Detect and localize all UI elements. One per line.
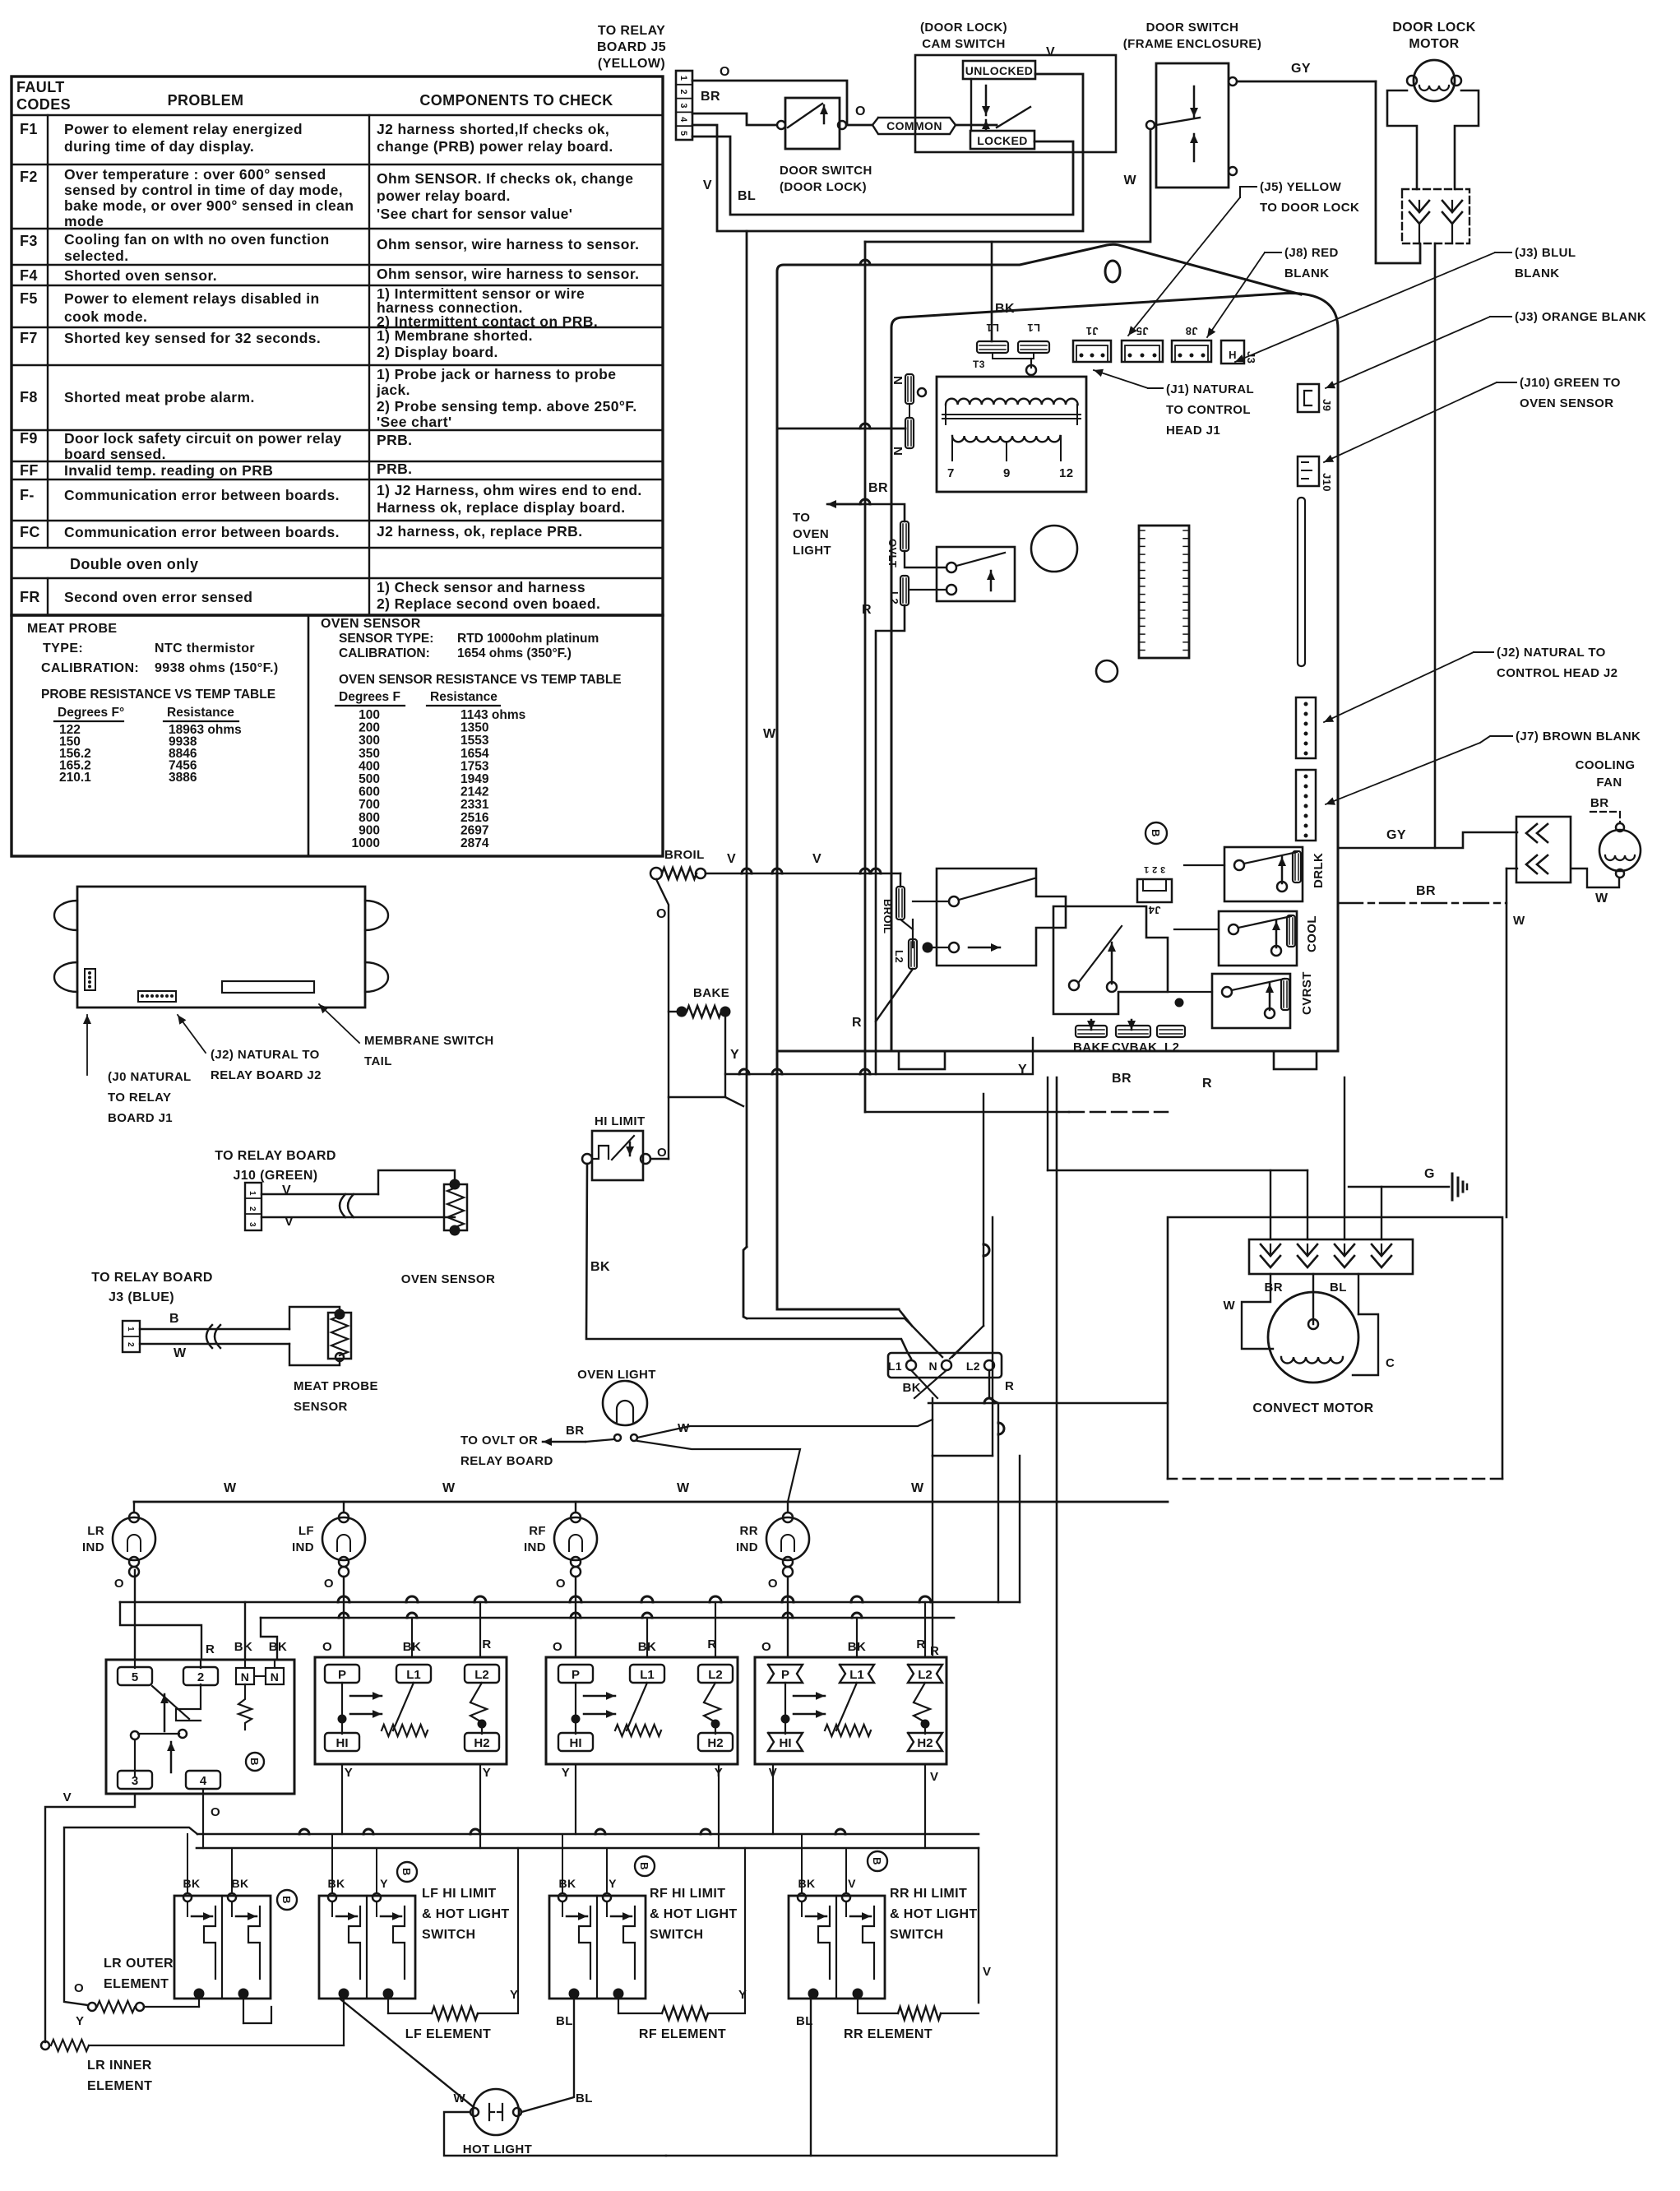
svg-text:Communication error between bo: Communication error between boards. xyxy=(64,524,340,540)
svg-text:HOT LIGHT: HOT LIGHT xyxy=(463,2142,532,2156)
svg-text:(YELLOW): (YELLOW) xyxy=(598,57,665,71)
svg-text:Door lock safety circuit on po: Door lock safety circuit on power relay xyxy=(64,430,342,447)
svg-text:Power to element relays disabl: Power to element relays disabled in xyxy=(64,290,320,307)
svg-text:NTC thermistor: NTC thermistor xyxy=(155,642,255,655)
svg-text:V: V xyxy=(930,1770,938,1784)
svg-text:O: O xyxy=(322,1640,332,1654)
svg-text:V: V xyxy=(282,1184,291,1197)
svg-text:COMPONENTS TO CHECK: COMPONENTS TO CHECK xyxy=(419,92,613,109)
svg-text:SENSOR: SENSOR xyxy=(294,1400,348,1414)
svg-text:SENSOR TYPE:: SENSOR TYPE: xyxy=(339,632,433,646)
svg-text:(J2) NATURAL TO: (J2) NATURAL TO xyxy=(1497,646,1606,660)
svg-text:1654 ohms (350°F.): 1654 ohms (350°F.) xyxy=(457,646,572,660)
svg-text:W: W xyxy=(174,1346,187,1360)
svg-text:V: V xyxy=(1046,45,1055,59)
svg-text:Over temperature : over 600° s: Over temperature : over 600° sensed xyxy=(64,166,326,183)
svg-text:P: P xyxy=(781,1668,789,1682)
svg-text:FC: FC xyxy=(20,524,40,540)
svg-text:L1: L1 xyxy=(888,1360,902,1373)
svg-text:TO RELAY: TO RELAY xyxy=(598,24,665,38)
svg-text:2: 2 xyxy=(126,1342,135,1347)
svg-text:F5: F5 xyxy=(20,290,38,307)
svg-text:F4: F4 xyxy=(20,267,38,284)
svg-text:BAKE: BAKE xyxy=(1073,1040,1109,1054)
svg-text:Y: Y xyxy=(380,1877,388,1890)
svg-text:ELEMENT: ELEMENT xyxy=(87,2079,152,2093)
svg-text:F8: F8 xyxy=(20,389,38,405)
svg-text:TO: TO xyxy=(793,511,810,525)
svg-text:O: O xyxy=(768,1577,778,1591)
svg-text:F3: F3 xyxy=(20,233,38,249)
svg-text:BK: BK xyxy=(558,1877,576,1890)
svg-text:BR: BR xyxy=(1112,1072,1132,1086)
svg-text:O: O xyxy=(556,1577,566,1591)
svg-text:UNLOCKED: UNLOCKED xyxy=(965,64,1034,77)
svg-text:900: 900 xyxy=(359,823,380,837)
svg-text:O: O xyxy=(324,1577,334,1591)
svg-text:BK: BK xyxy=(995,302,1015,316)
svg-text:jack.: jack. xyxy=(376,382,410,398)
svg-text:Power to element relay energiz: Power to element relay energized xyxy=(64,121,303,137)
svg-text:HI: HI xyxy=(336,1736,349,1750)
svg-text:(J3) ORANGE BLANK: (J3) ORANGE BLANK xyxy=(1515,310,1646,324)
svg-text:L1: L1 xyxy=(406,1668,421,1682)
svg-text:700: 700 xyxy=(359,798,380,812)
svg-text:V: V xyxy=(727,852,736,866)
svg-text:OVEN SENSOR: OVEN SENSOR xyxy=(1520,396,1613,410)
svg-text:F2: F2 xyxy=(20,169,38,185)
svg-text:1553: 1553 xyxy=(460,734,489,748)
svg-text:BL: BL xyxy=(556,2014,573,2028)
svg-text:TO DOOR LOCK: TO DOOR LOCK xyxy=(1260,201,1359,215)
svg-text:1: 1 xyxy=(678,76,688,81)
svg-text:HI: HI xyxy=(780,1736,792,1750)
svg-text:B: B xyxy=(871,1857,883,1865)
svg-text:J10 (GREEN): J10 (GREEN) xyxy=(233,1169,317,1183)
svg-text:1654: 1654 xyxy=(460,747,489,761)
svg-text:COOLING: COOLING xyxy=(1576,758,1636,772)
svg-text:1350: 1350 xyxy=(460,721,488,735)
svg-text:B: B xyxy=(280,1896,293,1904)
svg-text:Y: Y xyxy=(483,1766,491,1780)
svg-text:W: W xyxy=(453,2091,465,2105)
svg-text:B: B xyxy=(400,1868,413,1876)
svg-text:3886: 3886 xyxy=(169,771,197,785)
svg-text:B: B xyxy=(248,1758,261,1766)
svg-text:W: W xyxy=(911,1481,924,1495)
svg-text:IND: IND xyxy=(736,1540,758,1554)
svg-text:BK: BK xyxy=(903,1381,921,1395)
svg-text:H2: H2 xyxy=(474,1736,489,1750)
svg-text:O: O xyxy=(114,1577,124,1591)
svg-text:OVEN: OVEN xyxy=(793,527,829,541)
svg-text:J1: J1 xyxy=(1085,325,1098,337)
svg-text:J4: J4 xyxy=(1148,904,1161,916)
svg-text:400: 400 xyxy=(359,759,380,773)
svg-text:RTD 1000ohm platinum: RTD 1000ohm platinum xyxy=(457,632,599,646)
svg-text:IND: IND xyxy=(82,1540,104,1554)
svg-text:800: 800 xyxy=(359,811,380,825)
svg-text:RELAY BOARD: RELAY BOARD xyxy=(460,1454,553,1468)
svg-text:LF: LF xyxy=(299,1524,314,1538)
svg-text:during time of day display.: during time of day display. xyxy=(64,138,254,155)
svg-text:V: V xyxy=(848,1877,856,1890)
svg-text:IND: IND xyxy=(292,1540,314,1554)
svg-text:OVEN LIGHT: OVEN LIGHT xyxy=(577,1368,656,1382)
svg-text:N: N xyxy=(271,1670,280,1684)
svg-text:Communication error between bo: Communication error between boards. xyxy=(64,487,340,503)
svg-text:LR INNER: LR INNER xyxy=(87,2059,152,2073)
svg-text:2) Replace second oven boaed.: 2) Replace second oven boaed. xyxy=(377,595,600,612)
svg-text:Y: Y xyxy=(562,1766,570,1780)
svg-text:Y: Y xyxy=(609,1877,617,1890)
svg-text:R: R xyxy=(930,1644,939,1658)
svg-text:SWITCH: SWITCH xyxy=(650,1928,704,1942)
svg-text:W: W xyxy=(224,1481,237,1495)
svg-text:350: 350 xyxy=(359,747,380,761)
svg-text:power relay board.: power relay board. xyxy=(377,188,511,204)
svg-text:BR: BR xyxy=(1265,1281,1283,1295)
svg-text:ELEMENT: ELEMENT xyxy=(104,1977,169,1991)
svg-text:300: 300 xyxy=(359,734,380,748)
svg-text:OVEN SENSOR: OVEN SENSOR xyxy=(321,617,421,631)
svg-text:N: N xyxy=(891,447,905,456)
svg-text:& HOT LIGHT: & HOT LIGHT xyxy=(422,1907,510,1921)
svg-text:L2: L2 xyxy=(893,950,905,963)
svg-text:BOARD J1: BOARD J1 xyxy=(108,1111,173,1125)
svg-text:SWITCH: SWITCH xyxy=(890,1928,944,1942)
svg-text:RR ELEMENT: RR ELEMENT xyxy=(844,2027,933,2041)
svg-text:V: V xyxy=(812,852,821,866)
svg-text:2142: 2142 xyxy=(460,785,488,799)
svg-text:2516: 2516 xyxy=(460,811,489,825)
svg-text:Cooling fan on wIth no oven fu: Cooling fan on wIth no oven function xyxy=(64,231,330,248)
svg-text:Invalid temp. reading on PRB: Invalid temp. reading on PRB xyxy=(64,462,273,479)
svg-text:TAIL: TAIL xyxy=(364,1054,392,1068)
svg-text:Y: Y xyxy=(76,2014,84,2028)
svg-text:2874: 2874 xyxy=(460,836,489,850)
svg-text:2) Probe sensing temp. above 2: 2) Probe sensing temp. above 250°F. xyxy=(377,398,637,415)
svg-text:J2 harness shorted,If checks o: J2 harness shorted,If checks ok, xyxy=(377,121,609,137)
svg-text:MOTOR: MOTOR xyxy=(1409,37,1459,51)
svg-text:LIGHT: LIGHT xyxy=(793,544,831,558)
svg-text:(J7) BROWN BLANK: (J7) BROWN BLANK xyxy=(1516,730,1641,743)
svg-text:J9: J9 xyxy=(1321,399,1333,411)
svg-text:9938 ohms (150°F.): 9938 ohms (150°F.) xyxy=(155,661,279,675)
svg-text:1: 1 xyxy=(126,1327,135,1332)
svg-text:L2: L2 xyxy=(888,591,900,604)
svg-text:PROBE RESISTANCE VS TEMP TABLE: PROBE RESISTANCE VS TEMP TABLE xyxy=(41,688,275,702)
svg-text:O: O xyxy=(657,1146,667,1160)
svg-text:P: P xyxy=(572,1668,580,1682)
svg-text:CODES: CODES xyxy=(16,96,71,113)
svg-text:LF HI LIMIT: LF HI LIMIT xyxy=(422,1887,497,1901)
svg-text:B: B xyxy=(1150,829,1162,837)
svg-text:'See chart for sensor value': 'See chart for sensor value' xyxy=(377,206,572,222)
svg-text:V: V xyxy=(983,1965,991,1979)
svg-text:BR: BR xyxy=(1416,884,1436,898)
svg-text:W: W xyxy=(1123,174,1136,188)
svg-text:1: 1 xyxy=(248,1191,257,1196)
svg-text:Ohm sensor, wire harness to se: Ohm sensor, wire harness to sensor. xyxy=(377,236,639,252)
svg-text:O: O xyxy=(720,65,730,79)
svg-text:(DOOR LOCK): (DOOR LOCK) xyxy=(920,21,1007,35)
svg-text:RR HI LIMIT: RR HI LIMIT xyxy=(890,1887,967,1901)
svg-text:J10: J10 xyxy=(1321,473,1333,492)
svg-text:BK: BK xyxy=(234,1640,252,1654)
svg-text:BL: BL xyxy=(738,189,756,203)
svg-text:board sensed.: board sensed. xyxy=(64,446,166,462)
svg-text:5: 5 xyxy=(678,131,688,137)
svg-text:BR: BR xyxy=(701,90,720,104)
svg-text:200: 200 xyxy=(359,721,380,735)
svg-text:& HOT LIGHT: & HOT LIGHT xyxy=(890,1907,978,1921)
svg-text:CVRST: CVRST xyxy=(1300,971,1314,1015)
svg-text:HI LIMIT: HI LIMIT xyxy=(595,1114,646,1128)
svg-text:TO RELAY BOARD: TO RELAY BOARD xyxy=(215,1149,336,1163)
svg-text:bake mode, or over 900° sensed: bake mode, or over 900° sensed in clean xyxy=(64,197,354,214)
svg-text:Second oven error sensed: Second oven error sensed xyxy=(64,589,252,605)
svg-text:GY: GY xyxy=(1291,62,1311,76)
svg-text:COOL: COOL xyxy=(1305,915,1319,952)
svg-text:F1: F1 xyxy=(20,121,38,137)
svg-text:RELAY BOARD J2: RELAY BOARD J2 xyxy=(211,1068,322,1082)
svg-text:TO RELAY: TO RELAY xyxy=(108,1091,171,1105)
svg-text:Y: Y xyxy=(730,1048,739,1062)
svg-text:Shorted key sensed for 32 seco: Shorted key sensed for 32 seconds. xyxy=(64,330,321,346)
svg-text:BL: BL xyxy=(576,2091,593,2105)
svg-text:R: R xyxy=(206,1642,215,1656)
svg-text:OVEN SENSOR: OVEN SENSOR xyxy=(401,1272,495,1286)
svg-text:2: 2 xyxy=(248,1207,257,1211)
svg-text:1) Check sensor and harness: 1) Check sensor and harness xyxy=(377,579,585,595)
svg-text:MEAT PROBE: MEAT PROBE xyxy=(27,622,117,636)
svg-text:N: N xyxy=(241,1670,250,1684)
svg-text:Degrees F°: Degrees F° xyxy=(58,706,124,720)
svg-text:PRB.: PRB. xyxy=(377,461,412,477)
svg-text:BK: BK xyxy=(231,1877,248,1890)
svg-text:PRB.: PRB. xyxy=(377,432,412,448)
svg-text:W: W xyxy=(442,1481,456,1495)
svg-text:J8: J8 xyxy=(1185,325,1197,337)
svg-text:12: 12 xyxy=(1059,466,1074,480)
svg-text:CVBAK: CVBAK xyxy=(1112,1040,1157,1054)
svg-text:W: W xyxy=(677,1481,690,1495)
svg-text:1) J2 Harness, ohm wires end t: 1) J2 Harness, ohm wires end to end. xyxy=(377,482,642,498)
svg-text:Degrees F: Degrees F xyxy=(339,690,400,704)
svg-text:BROIL: BROIL xyxy=(664,848,705,862)
svg-text:LOCKED: LOCKED xyxy=(977,134,1028,147)
svg-text:OVLT: OVLT xyxy=(886,539,899,567)
svg-text:HI: HI xyxy=(570,1736,582,1750)
svg-text:L2: L2 xyxy=(918,1668,933,1682)
svg-text:V: V xyxy=(63,1790,72,1804)
svg-text:P: P xyxy=(338,1668,346,1682)
svg-text:(J8) RED: (J8) RED xyxy=(1284,246,1339,260)
svg-text:& HOT LIGHT: & HOT LIGHT xyxy=(650,1907,738,1921)
svg-text:W: W xyxy=(1513,914,1525,928)
svg-text:DRLK: DRLK xyxy=(1312,853,1326,888)
svg-text:FAN: FAN xyxy=(1596,776,1622,790)
svg-text:'See chart': 'See chart' xyxy=(377,414,452,430)
svg-text:1753: 1753 xyxy=(460,759,489,773)
svg-text:change (PRB) power relay board: change (PRB) power relay board. xyxy=(377,138,613,155)
svg-text:Harness ok, replace display bo: Harness ok, replace display board. xyxy=(377,499,625,516)
svg-text:Shorted meat probe alarm.: Shorted meat probe alarm. xyxy=(64,389,255,405)
svg-text:BLANK: BLANK xyxy=(1284,266,1330,280)
svg-text:GY: GY xyxy=(1386,828,1406,842)
svg-text:T3: T3 xyxy=(973,359,985,370)
svg-text:N: N xyxy=(891,376,905,385)
svg-text:7: 7 xyxy=(947,466,955,480)
svg-text:BR: BR xyxy=(868,481,888,495)
svg-text:RF HI LIMIT: RF HI LIMIT xyxy=(650,1887,725,1901)
svg-text:DOOR SWITCH: DOOR SWITCH xyxy=(780,164,872,178)
svg-text:mode: mode xyxy=(64,213,104,229)
svg-text:BLANK: BLANK xyxy=(1515,266,1560,280)
svg-text:O: O xyxy=(855,104,866,118)
svg-text:BK: BK xyxy=(798,1877,815,1890)
svg-text:J2 harness, ok, replace PRB.: J2 harness, ok, replace PRB. xyxy=(377,523,582,540)
svg-text:(J2) NATURAL TO: (J2) NATURAL TO xyxy=(211,1048,320,1062)
svg-text:Resistance: Resistance xyxy=(430,690,498,704)
svg-text:DOOR LOCK: DOOR LOCK xyxy=(1392,21,1475,35)
svg-text:Shorted oven sensor.: Shorted oven sensor. xyxy=(64,267,217,284)
svg-text:2) Display board.: 2) Display board. xyxy=(377,344,498,360)
svg-text:100: 100 xyxy=(359,708,380,722)
svg-text:B: B xyxy=(638,1862,650,1870)
svg-text:G: G xyxy=(1424,1167,1435,1181)
svg-text:FF: FF xyxy=(20,462,39,479)
svg-text:H2: H2 xyxy=(707,1736,723,1750)
svg-text:2: 2 xyxy=(678,90,688,95)
svg-text:O: O xyxy=(211,1805,220,1819)
svg-text:sensed by control in time of d: sensed by control in time of day mode, xyxy=(64,182,343,198)
svg-text:R: R xyxy=(862,603,872,617)
svg-text:IND: IND xyxy=(524,1540,546,1554)
svg-text:Y: Y xyxy=(345,1766,353,1780)
svg-text:CALIBRATION:: CALIBRATION: xyxy=(339,646,430,660)
svg-text:Double oven only: Double oven only xyxy=(70,556,198,572)
svg-text:BK: BK xyxy=(183,1877,200,1890)
svg-text:(J10) GREEN TO: (J10) GREEN TO xyxy=(1520,376,1621,390)
svg-text:L2: L2 xyxy=(966,1360,980,1373)
svg-text:R: R xyxy=(482,1637,491,1651)
svg-text:BR: BR xyxy=(566,1424,584,1438)
svg-text:Ohm sensor, wire harness to se: Ohm sensor, wire harness to sensor. xyxy=(377,266,639,282)
svg-text:TO CONTROL: TO CONTROL xyxy=(1166,403,1251,417)
svg-text:Ohm SENSOR. If checks ok, chan: Ohm SENSOR. If checks ok, change xyxy=(377,170,633,187)
svg-text:2: 2 xyxy=(197,1670,204,1684)
svg-text:F-: F- xyxy=(20,487,35,503)
svg-text:CALIBRATION:: CALIBRATION: xyxy=(41,661,139,675)
svg-text:Resistance: Resistance xyxy=(167,706,234,720)
svg-text:C: C xyxy=(1386,1356,1395,1370)
svg-text:1000: 1000 xyxy=(352,836,380,850)
svg-text:RF ELEMENT: RF ELEMENT xyxy=(639,2027,726,2041)
svg-text:(J3) BLUL: (J3) BLUL xyxy=(1515,246,1576,260)
svg-text:1) Probe jack or harness to pr: 1) Probe jack or harness to probe xyxy=(377,366,616,382)
svg-text:O: O xyxy=(761,1640,771,1654)
svg-text:600: 600 xyxy=(359,785,380,799)
svg-text:cook mode.: cook mode. xyxy=(64,308,147,325)
svg-text:1949: 1949 xyxy=(460,772,489,786)
svg-text:H: H xyxy=(1229,349,1237,361)
svg-text:CONTROL HEAD J2: CONTROL HEAD J2 xyxy=(1497,666,1618,680)
svg-text:3: 3 xyxy=(678,103,688,109)
svg-text:MEMBRANE SWITCH: MEMBRANE SWITCH xyxy=(364,1034,494,1048)
svg-text:TYPE:: TYPE: xyxy=(43,642,83,655)
svg-text:Y: Y xyxy=(510,1988,518,2002)
svg-text:2331: 2331 xyxy=(460,798,489,812)
svg-text:BL: BL xyxy=(1330,1281,1347,1295)
svg-text:B: B xyxy=(169,1312,179,1326)
svg-text:(J5) YELLOW: (J5) YELLOW xyxy=(1260,180,1342,194)
svg-text:SWITCH: SWITCH xyxy=(422,1928,476,1942)
svg-text:FAULT: FAULT xyxy=(16,79,65,95)
svg-text:F9: F9 xyxy=(20,430,38,447)
svg-text:DOOR SWITCH: DOOR SWITCH xyxy=(1146,21,1239,35)
svg-text:BROIL: BROIL xyxy=(882,899,894,933)
svg-text:1143 ohms: 1143 ohms xyxy=(460,708,525,722)
svg-text:TO RELAY BOARD: TO RELAY BOARD xyxy=(91,1271,213,1285)
svg-text:V: V xyxy=(703,178,712,192)
svg-text:BOARD J5: BOARD J5 xyxy=(597,40,666,54)
svg-text:R: R xyxy=(1005,1379,1014,1393)
svg-text:OVEN SENSOR RESISTANCE VS TEMP: OVEN SENSOR RESISTANCE VS TEMP TABLE xyxy=(339,673,622,687)
svg-text:L2: L2 xyxy=(1164,1040,1179,1054)
svg-text:1) Membrane shorted.: 1) Membrane shorted. xyxy=(377,327,533,344)
svg-text:W: W xyxy=(1595,892,1608,906)
svg-text:N: N xyxy=(928,1360,937,1373)
svg-text:L1: L1 xyxy=(849,1668,864,1682)
svg-text:H2: H2 xyxy=(917,1736,933,1750)
svg-text:4: 4 xyxy=(200,1774,207,1788)
svg-text:LR: LR xyxy=(87,1524,104,1538)
svg-text:BK: BK xyxy=(327,1877,345,1890)
svg-text:J3: J3 xyxy=(1245,351,1257,364)
svg-text:3: 3 xyxy=(248,1222,257,1227)
svg-text:RR: RR xyxy=(740,1524,758,1538)
svg-text:9: 9 xyxy=(1003,466,1011,480)
svg-text:CAM SWITCH: CAM SWITCH xyxy=(922,37,1006,51)
svg-text:O: O xyxy=(553,1640,562,1654)
svg-text:HEAD J1: HEAD J1 xyxy=(1166,424,1220,438)
svg-text:2697: 2697 xyxy=(460,823,488,837)
svg-text:LF ELEMENT: LF ELEMENT xyxy=(405,2027,491,2041)
svg-text:J3 (BLUE): J3 (BLUE) xyxy=(109,1290,174,1304)
svg-text:(J1) NATURAL: (J1) NATURAL xyxy=(1166,382,1254,396)
svg-text:MEAT PROBE: MEAT PROBE xyxy=(294,1379,378,1393)
svg-text:500: 500 xyxy=(359,772,380,786)
svg-text:selected.: selected. xyxy=(64,248,129,264)
svg-text:BK: BK xyxy=(590,1260,610,1274)
svg-text:R: R xyxy=(852,1016,862,1030)
svg-text:L2: L2 xyxy=(708,1668,723,1682)
svg-text:L1: L1 xyxy=(1027,322,1040,334)
svg-text:(J0 NATURAL: (J0 NATURAL xyxy=(108,1070,192,1084)
svg-text:RF: RF xyxy=(529,1524,546,1538)
svg-text:BR: BR xyxy=(1590,796,1608,810)
svg-text:O: O xyxy=(656,907,667,921)
svg-text:L1: L1 xyxy=(640,1668,655,1682)
svg-text:R: R xyxy=(1202,1077,1212,1091)
svg-text:CONVECT MOTOR: CONVECT MOTOR xyxy=(1252,1401,1373,1415)
svg-text:(FRAME ENCLOSURE): (FRAME ENCLOSURE) xyxy=(1123,37,1261,51)
svg-text:5: 5 xyxy=(132,1670,138,1684)
svg-text:W: W xyxy=(763,727,776,741)
svg-text:210.1: 210.1 xyxy=(59,771,91,785)
